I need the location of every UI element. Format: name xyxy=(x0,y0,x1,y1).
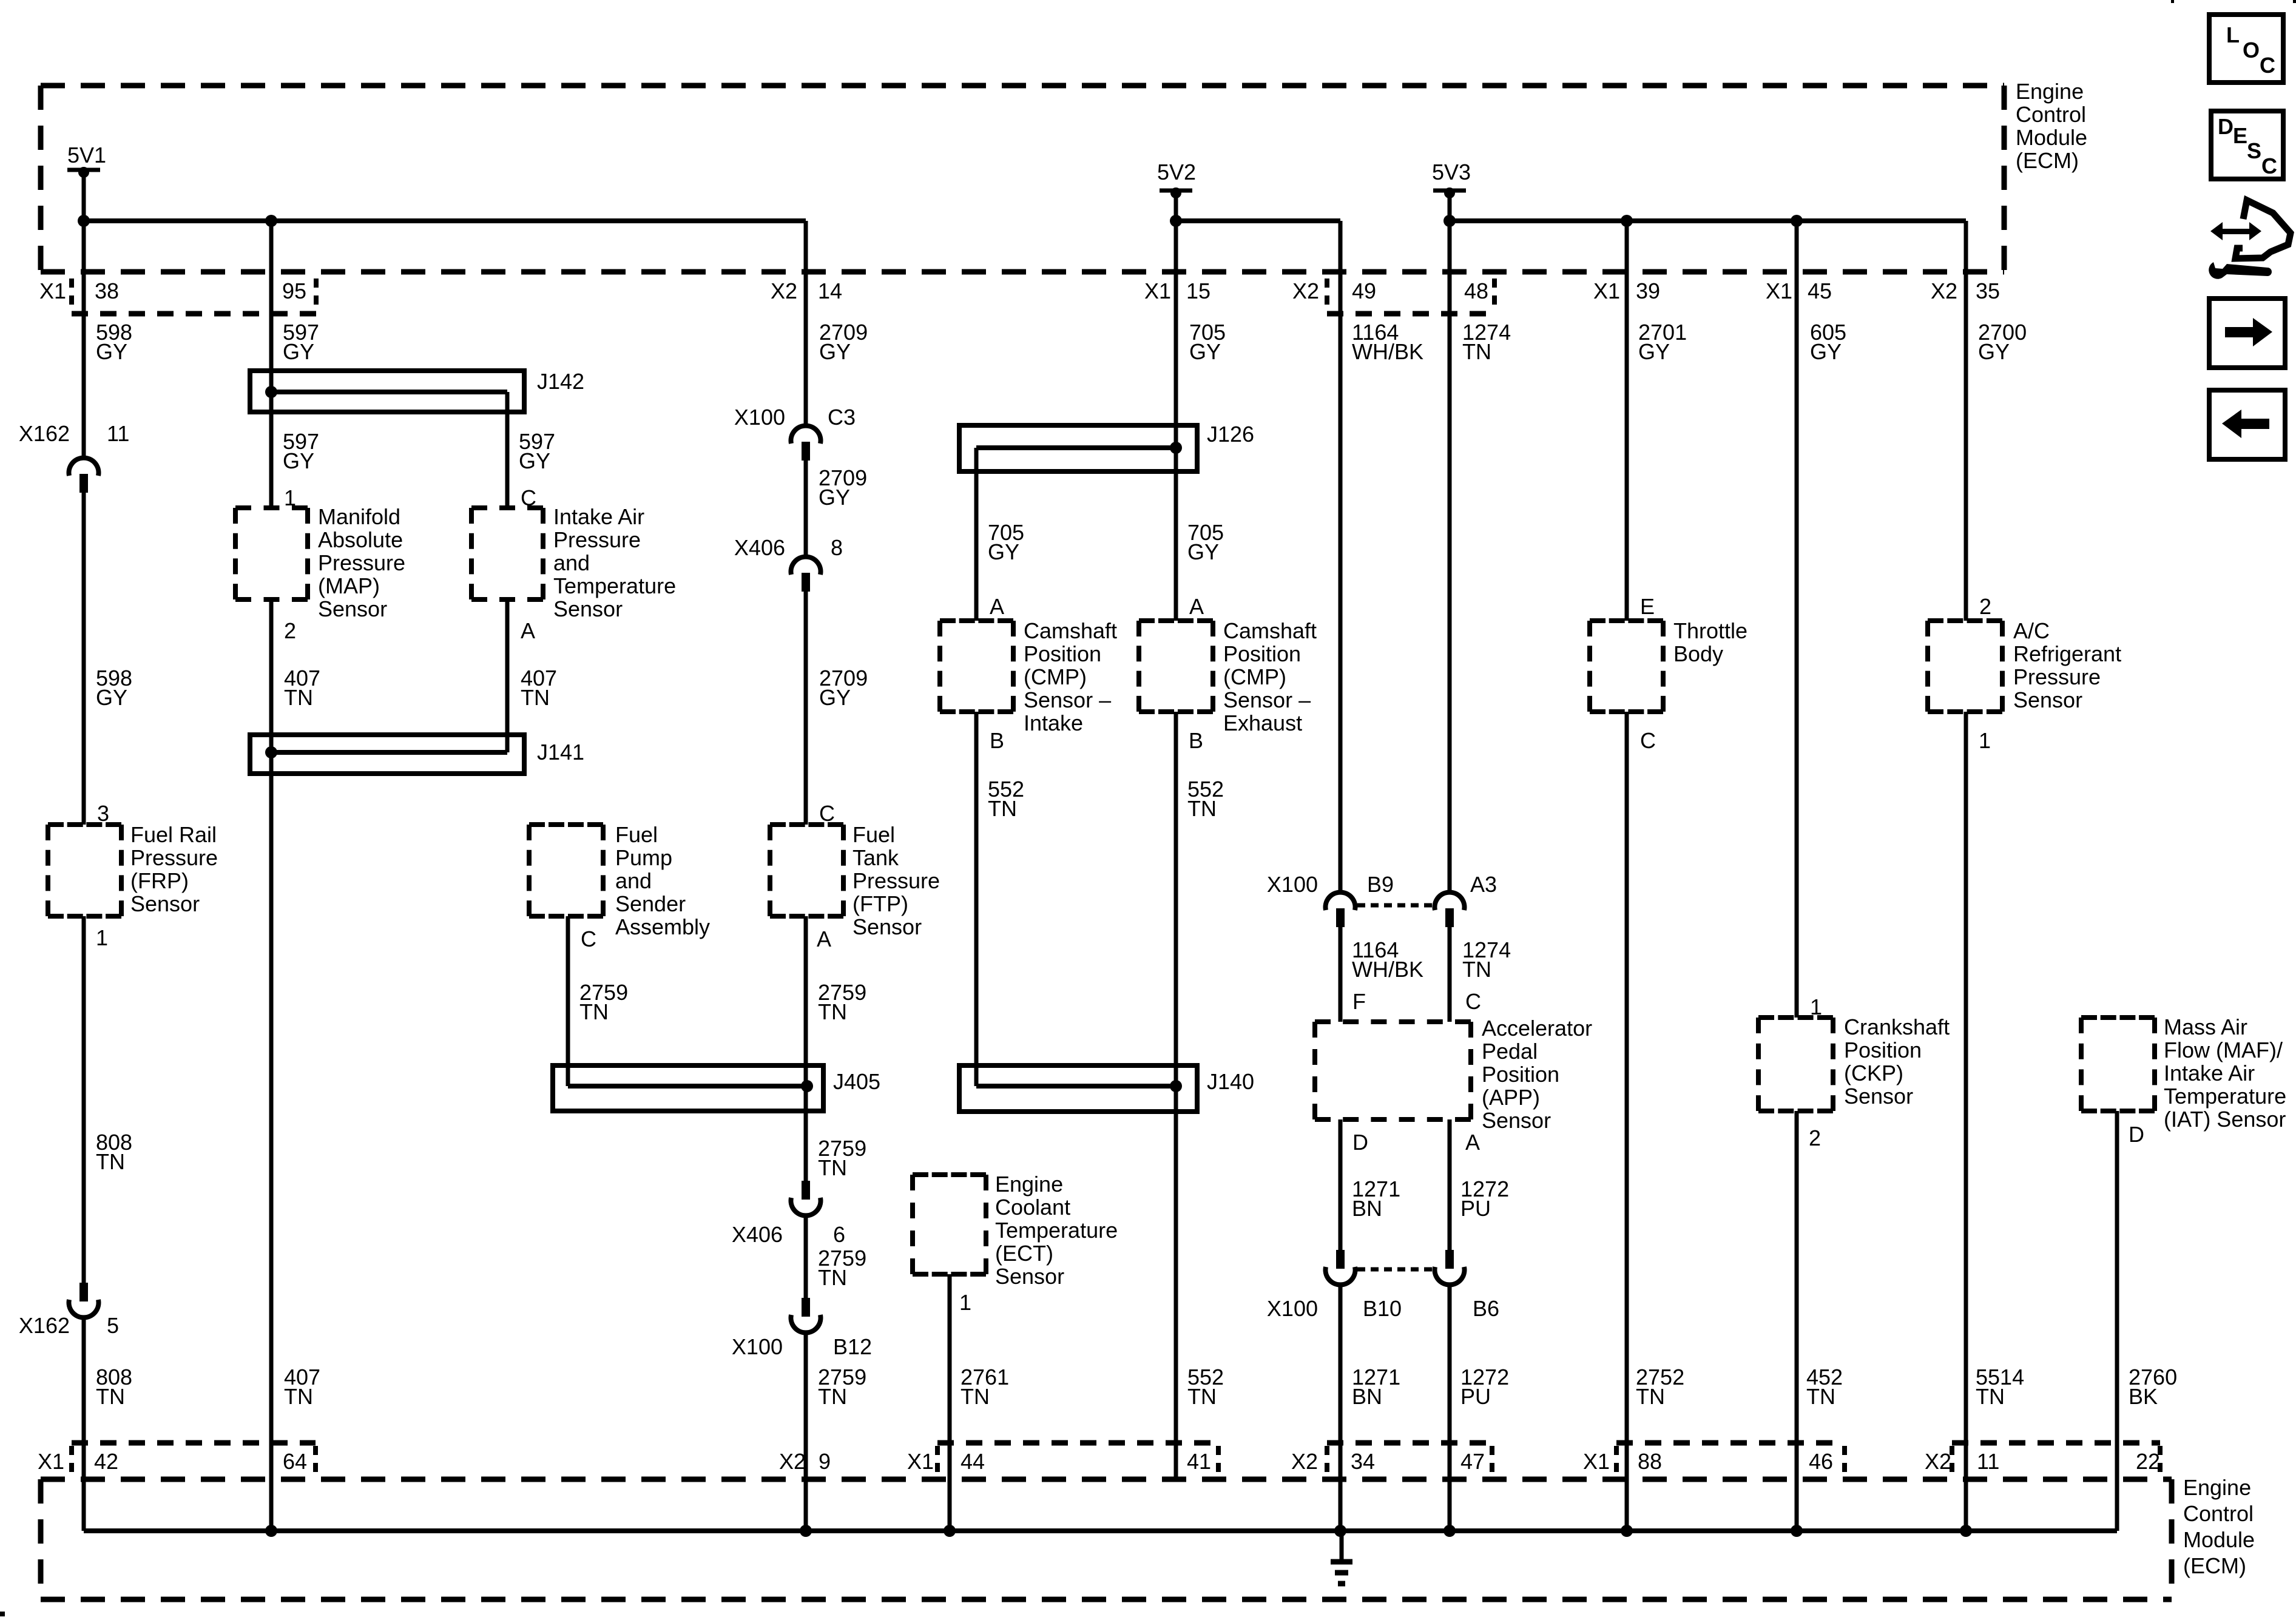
connector X100 pin B9 xyxy=(1267,872,1394,927)
svg-text:Camshaft: Camshaft xyxy=(1024,618,1117,643)
5V1 reference voltage terminal xyxy=(67,143,106,178)
wire 552 TN CMP exhaust pin B to J140 xyxy=(1174,712,1178,1086)
label wire 597 GY (J142 left) xyxy=(283,429,319,473)
ECM connector X2 pins 49 48 bracket xyxy=(1292,279,1494,314)
label wire 598 GY xyxy=(96,320,132,364)
svg-text:Position: Position xyxy=(1482,1062,1559,1087)
label Fuel Pump and Sender Assembly xyxy=(615,822,710,939)
splice J126 xyxy=(959,422,1254,471)
svg-text:GY: GY xyxy=(1810,339,1842,364)
svg-text:GY: GY xyxy=(283,339,314,364)
svg-text:Pressure: Pressure xyxy=(2013,664,2101,689)
svg-text:Module: Module xyxy=(2183,1527,2255,1552)
svg-text:X1: X1 xyxy=(1583,1449,1610,1474)
svg-text:J405: J405 xyxy=(833,1069,880,1094)
sensor AC Refrigerant Pressure dashed box xyxy=(1928,621,2002,712)
label wire 2759 TN (fuel pump) xyxy=(579,980,628,1024)
svg-text:2: 2 xyxy=(1809,1126,1821,1150)
label wire 2759 TN (FTP) xyxy=(818,980,866,1024)
splice J405 xyxy=(553,1065,880,1111)
svg-text:14: 14 xyxy=(818,279,842,303)
connector X162 pin 11 xyxy=(19,421,129,493)
sensor MAP dashed box xyxy=(235,508,308,599)
svg-text:C: C xyxy=(2261,154,2277,178)
svg-text:TN: TN xyxy=(284,685,313,710)
wire 808 TN X162-5 to pin 42 xyxy=(82,1318,86,1531)
svg-text:B: B xyxy=(1189,728,1203,753)
svg-text:C: C xyxy=(819,801,835,826)
wire 598 GY pin38 to X162-11 xyxy=(82,170,86,457)
svg-text:Intake Air: Intake Air xyxy=(553,504,644,529)
svg-text:5V1: 5V1 xyxy=(67,143,106,167)
ECM connector X2 pins 11 22 bracket bottom xyxy=(1925,1443,2160,1474)
sensor FRP dashed box xyxy=(48,825,121,916)
junction bus x=1328 xyxy=(800,1525,812,1537)
svg-text:Sensor: Sensor xyxy=(1844,1084,1913,1109)
svg-text:Absolute: Absolute xyxy=(318,527,403,552)
svg-text:X1: X1 xyxy=(907,1449,934,1474)
svg-text:Pump: Pump xyxy=(615,845,672,870)
svg-text:WH/BK: WH/BK xyxy=(1352,957,1423,982)
label wire 2759 TN below X406-6 xyxy=(818,1246,866,1290)
svg-text:2: 2 xyxy=(284,618,296,643)
svg-text:Temperature: Temperature xyxy=(995,1218,1118,1243)
svg-text:X162: X162 xyxy=(19,421,70,446)
svg-text:TN: TN xyxy=(818,1384,847,1409)
ECM connector X1 pins 38 95 bracket xyxy=(39,279,316,314)
wire 407 TN J141 to pin 64 xyxy=(269,752,274,1531)
svg-text:Tank: Tank xyxy=(853,845,899,870)
junction bus x=2681 xyxy=(1621,1525,1633,1537)
svg-text:(MAP): (MAP) xyxy=(318,573,380,598)
svg-text:Flow (MAF)/: Flow (MAF)/ xyxy=(2164,1038,2283,1062)
svg-text:TN: TN xyxy=(1806,1384,1835,1409)
svg-text:X1: X1 xyxy=(1766,279,1792,303)
label wire 2759 TN below J405 xyxy=(818,1136,866,1180)
svg-text:C: C xyxy=(1640,728,1656,753)
svg-text:X2: X2 xyxy=(1292,279,1319,303)
svg-text:TN: TN xyxy=(988,796,1017,821)
wire 705 GY J126 to CMP exhaust pin A xyxy=(1174,448,1178,621)
svg-text:X2: X2 xyxy=(779,1449,806,1474)
svg-text:A: A xyxy=(1189,594,1204,619)
svg-text:X100: X100 xyxy=(732,1334,783,1359)
svg-text:64: 64 xyxy=(283,1449,307,1474)
svg-text:D: D xyxy=(2218,114,2234,139)
svg-text:X2: X2 xyxy=(1925,1449,1951,1474)
wire 1272 PU X100-B6 to pin 47 xyxy=(1448,1285,1452,1531)
connector X162 pin 5 xyxy=(19,1283,119,1338)
svg-text:X1: X1 xyxy=(1593,279,1620,303)
svg-text:Module: Module xyxy=(2016,125,2087,150)
label wire 2761 TN bottom xyxy=(961,1365,1009,1409)
svg-text:38: 38 xyxy=(95,279,119,303)
wire 605 GY pin45 to CKP pin 1 xyxy=(1795,221,1799,1018)
wire 2709 GY X100-C3 to X406-8 xyxy=(804,457,808,556)
svg-text:GY: GY xyxy=(819,485,850,510)
svg-text:Exhaust: Exhaust xyxy=(1223,711,1302,735)
junction bus/pin95 xyxy=(265,215,277,227)
svg-text:Control: Control xyxy=(2016,102,2086,127)
svg-text:Sensor: Sensor xyxy=(2013,687,2082,712)
svg-text:Temperature: Temperature xyxy=(553,573,676,598)
label wire 1274 TN lower xyxy=(1462,937,1511,982)
wire 2752 TN Throttle Body pin C to pin 88 xyxy=(1625,712,1629,1531)
wire 2759 TN Fuel Pump pin C to J405 xyxy=(568,916,807,1086)
icon DESC box xyxy=(2211,111,2283,179)
svg-text:Assembly: Assembly xyxy=(615,914,710,939)
wire 5V2 internal bus xyxy=(1176,221,1340,272)
label wire 2709 GY (pin 14) xyxy=(819,320,868,364)
label wire 2701 GY (pin 39) xyxy=(1638,320,1687,364)
svg-text:A: A xyxy=(817,927,831,951)
svg-text:39: 39 xyxy=(1636,279,1660,303)
svg-text:Position: Position xyxy=(1223,641,1301,666)
svg-text:Engine: Engine xyxy=(2016,79,2084,104)
wire ECM internal ground bus xyxy=(84,1528,2117,1533)
svg-text:BN: BN xyxy=(1352,1384,1382,1409)
svg-text:X100: X100 xyxy=(734,405,785,430)
wire 705 GY J126 to CMP intake pin A xyxy=(974,448,979,621)
ECM connector X1 pin 39 xyxy=(1593,279,1660,303)
svg-text:Sensor: Sensor xyxy=(130,891,200,916)
label wire 705 GY (pin 15) xyxy=(1189,320,1226,364)
svg-text:3: 3 xyxy=(97,801,109,826)
wire 1274 TN 5V3 to X100-A3 xyxy=(1448,191,1452,892)
junction 5V1/pin38 xyxy=(78,215,90,227)
svg-text:BK: BK xyxy=(2129,1384,2158,1409)
svg-text:C3: C3 xyxy=(828,405,856,430)
wire 2759 TN J405 to X406-6 xyxy=(804,1086,808,1181)
svg-text:(ECT): (ECT) xyxy=(995,1241,1053,1266)
wire 1272 PU APP pin A to X100-B6 xyxy=(1448,1119,1452,1250)
svg-text:1: 1 xyxy=(1979,728,1991,753)
wire 5V3 internal bus xyxy=(1450,221,1966,272)
svg-text:TN: TN xyxy=(1462,339,1491,364)
svg-text:Sensor: Sensor xyxy=(853,914,922,939)
svg-text:X100: X100 xyxy=(1267,872,1318,897)
svg-text:GY: GY xyxy=(283,448,314,473)
svg-text:(FRP): (FRP) xyxy=(130,868,189,893)
svg-text:C: C xyxy=(581,927,596,951)
sensor FTP dashed box xyxy=(770,825,843,916)
svg-text:X1: X1 xyxy=(39,279,66,303)
svg-text:Crankshaft: Crankshaft xyxy=(1844,1014,1950,1039)
svg-text:95: 95 xyxy=(282,279,306,303)
junction bus x=1565 xyxy=(944,1525,956,1537)
wire 598 GY X162-11 to FRP pin 3 xyxy=(82,493,86,825)
label wire 598 GY lower xyxy=(96,666,132,710)
svg-text:TN: TN xyxy=(579,999,609,1024)
svg-text:Pressure: Pressure xyxy=(318,550,405,575)
svg-text:TN: TN xyxy=(96,1384,125,1409)
svg-text:Throttle: Throttle xyxy=(1673,618,1747,643)
label Crankshaft Position (CKP) Sensor xyxy=(1844,1014,1950,1109)
svg-text:A/C: A/C xyxy=(2013,618,2050,643)
label wire 452 TN bottom xyxy=(1806,1365,1843,1409)
svg-text:X2: X2 xyxy=(771,279,797,303)
svg-text:B12: B12 xyxy=(833,1334,872,1359)
svg-text:Sensor: Sensor xyxy=(318,596,387,621)
wire 2759 TN X406-6 to X100-B12 xyxy=(804,1216,808,1298)
svg-text:Sensor –: Sensor – xyxy=(1223,687,1311,712)
svg-text:8: 8 xyxy=(831,535,843,560)
splice J140 xyxy=(959,1065,1254,1112)
ECM connector X1 pins 44 41 bracket bottom xyxy=(907,1443,1218,1474)
label wire 407 TN bottom xyxy=(284,1365,320,1409)
svg-text:Position: Position xyxy=(1844,1038,1922,1062)
label wire 2759 TN bottom xyxy=(818,1365,866,1409)
wire 597 GY pin95 to J142 xyxy=(269,221,274,392)
svg-text:Position: Position xyxy=(1024,641,1101,666)
svg-text:2: 2 xyxy=(1979,594,1991,619)
svg-text:S: S xyxy=(2247,138,2261,163)
label Engine Control Module (ECM) bottom right xyxy=(2183,1475,2255,1578)
wire 2709 GY X406-8 to FTP pin C xyxy=(804,589,808,825)
svg-text:1: 1 xyxy=(1810,994,1822,1019)
svg-text:GY: GY xyxy=(1638,339,1670,364)
label wire 552 TN (CMP intake) xyxy=(988,777,1024,821)
svg-text:B6: B6 xyxy=(1473,1296,1499,1321)
svg-text:(ECM): (ECM) xyxy=(2183,1553,2246,1578)
svg-text:Body: Body xyxy=(1673,641,1723,666)
wire 2759 TN FTP pin A to J405 xyxy=(804,916,808,1086)
wire 2701 GY pin39 to Throttle Body pin E xyxy=(1625,221,1629,621)
svg-text:L: L xyxy=(2226,22,2240,47)
svg-text:9: 9 xyxy=(819,1449,831,1474)
connector X100 pin B6 xyxy=(1434,1250,1499,1321)
dashed link X100 B10-B6 xyxy=(1357,1268,1433,1272)
svg-text:41: 41 xyxy=(1187,1449,1211,1474)
svg-text:5: 5 xyxy=(107,1313,119,1338)
svg-text:Coolant: Coolant xyxy=(995,1195,1070,1220)
svg-text:Engine: Engine xyxy=(995,1172,1063,1197)
svg-text:GY: GY xyxy=(519,448,550,473)
label Throttle Body xyxy=(1673,618,1747,666)
wire 597 GY J142 to MAP pin 1 xyxy=(269,392,274,508)
svg-text:Pressure: Pressure xyxy=(130,845,218,870)
svg-text:Refrigerant: Refrigerant xyxy=(2013,641,2121,666)
icon forward arrow box xyxy=(2209,299,2285,368)
label Camshaft Position (CMP) Sensor - Exhaust xyxy=(1223,618,1317,735)
svg-text:Mass Air: Mass Air xyxy=(2164,1014,2247,1039)
label wire 705 GY (CMP intake) xyxy=(988,520,1024,564)
svg-text:11: 11 xyxy=(107,421,129,446)
ECM connector X2 pin 35 xyxy=(1931,279,2000,303)
label Camshaft Position (CMP) Sensor - Intake xyxy=(1024,618,1117,735)
svg-text:F: F xyxy=(1352,989,1366,1014)
junction bus/pin39 xyxy=(1621,215,1633,227)
svg-text:TN: TN xyxy=(96,1149,125,1174)
svg-text:TN: TN xyxy=(1187,1384,1217,1409)
svg-text:Pressure: Pressure xyxy=(853,868,940,893)
ECM top dashed box (Engine Control Module) xyxy=(41,86,2004,272)
svg-text:46: 46 xyxy=(1809,1449,1833,1474)
svg-text:1: 1 xyxy=(96,925,108,950)
label Mass Air Flow (MAF)/Intake Air Temperature (IAT) Sensor xyxy=(2164,1014,2286,1132)
svg-text:Intake: Intake xyxy=(1024,711,1083,735)
wire 5514 TN AC pressure sensor pin 1 to pin 11 xyxy=(1964,712,1968,1531)
label wire 597 GY (J142 right) xyxy=(519,429,555,473)
wire 2761 TN ECT pin1 to pin 44 xyxy=(948,1274,952,1531)
label Accelerator Pedal Position (APP) Sensor xyxy=(1482,1016,1592,1133)
junction bus x=3240 xyxy=(1960,1525,1972,1537)
junction bus x=447 xyxy=(265,1525,277,1537)
wire 1274 TN X100-A3 to APP pin C xyxy=(1448,927,1452,1022)
junction bus x=2209 xyxy=(1334,1525,1346,1537)
component Fuel Pump and Sender Assembly dashed box xyxy=(529,825,603,916)
label Manifold Absolute Pressure (MAP) Sensor xyxy=(318,504,405,621)
svg-text:49: 49 xyxy=(1352,279,1376,303)
junction bus x=2389 xyxy=(1443,1525,1456,1537)
svg-text:X1: X1 xyxy=(1144,279,1171,303)
icon LOC box xyxy=(2209,15,2283,83)
svg-text:A: A xyxy=(521,618,535,643)
ground symbol xyxy=(1331,1531,1352,1584)
wire 597 GY J142 to IAP pin C xyxy=(505,392,510,508)
svg-text:48: 48 xyxy=(1464,279,1488,303)
label wire 2752 TN bottom xyxy=(1636,1365,1684,1409)
label Engine Control Module (ECM) top right xyxy=(2016,79,2087,173)
wire 2760 BK MAF pin D to pin 22 xyxy=(2115,1111,2119,1531)
svg-text:PU: PU xyxy=(1460,1384,1491,1409)
svg-text:Fuel Rail: Fuel Rail xyxy=(130,822,217,847)
svg-text:TN: TN xyxy=(1636,1384,1665,1409)
wire 5V1 internal bus xyxy=(84,221,806,272)
wire 1271 BN X100-B10 to pin 34 xyxy=(1339,1285,1343,1531)
wire 1164 WH/BK pin49 to X100-B9 xyxy=(1339,221,1343,892)
svg-text:D: D xyxy=(1352,1130,1368,1155)
svg-text:TN: TN xyxy=(1462,957,1491,982)
splice J141 xyxy=(250,735,584,774)
wire 2759 TN X100-B12 to pin 9 xyxy=(804,1333,808,1531)
connector X100 pin B12 xyxy=(732,1298,872,1359)
label wire 407 TN (MAP) xyxy=(284,666,320,710)
sensor ECT dashed box xyxy=(913,1175,986,1274)
svg-text:Manifold: Manifold xyxy=(318,504,400,529)
svg-text:Sensor: Sensor xyxy=(553,596,623,621)
wire 705 GY 5V2 to J126 xyxy=(1174,191,1178,448)
svg-text:TN: TN xyxy=(1976,1384,2005,1409)
sensor Throttle Body dashed box xyxy=(1590,621,1663,712)
label wire 407 TN (IAP) xyxy=(521,666,557,710)
ECM connector X1 pin 15 xyxy=(1144,279,1210,303)
label wire 2700 GY (pin 35) xyxy=(1978,320,2027,364)
icon wiring schematic jump (arrow and wrench) xyxy=(2209,200,2291,279)
label Fuel Rail Pressure (FRP) Sensor xyxy=(130,822,218,916)
svg-text:(IAT) Sensor: (IAT) Sensor xyxy=(2164,1107,2286,1132)
svg-text:Intake Air: Intake Air xyxy=(2164,1061,2255,1085)
svg-text:Accelerator: Accelerator xyxy=(1482,1016,1592,1041)
svg-text:WH/BK: WH/BK xyxy=(1352,339,1423,364)
svg-text:J141: J141 xyxy=(537,740,584,765)
svg-text:22: 22 xyxy=(2136,1449,2160,1474)
label wire 1274 TN (pin 48) xyxy=(1462,320,1511,364)
svg-text:X2: X2 xyxy=(1291,1449,1318,1474)
svg-text:GY: GY xyxy=(1978,339,2010,364)
label wire 2760 BK bottom xyxy=(2129,1365,2177,1409)
connector X100 pin A3 xyxy=(1435,872,1497,927)
wire 2700 GY pin35 to AC pressure sensor pin 2 xyxy=(1964,221,1968,621)
svg-text:BN: BN xyxy=(1352,1196,1382,1221)
svg-text:B10: B10 xyxy=(1363,1296,1402,1321)
junction 5V3/pin48 xyxy=(1443,215,1456,227)
svg-text:TN: TN xyxy=(961,1384,990,1409)
svg-text:GY: GY xyxy=(988,539,1019,564)
svg-text:B9: B9 xyxy=(1367,872,1394,897)
svg-text:TN: TN xyxy=(818,999,847,1024)
svg-text:GY: GY xyxy=(96,339,127,364)
wire 1164 WH/BK X100-B9 to APP pin F xyxy=(1339,927,1343,1022)
page corner mark bottom left xyxy=(0,1612,5,1616)
5V2 reference voltage terminal xyxy=(1157,160,1196,198)
svg-text:X406: X406 xyxy=(732,1222,783,1247)
ECM connector X2 pin 9 bottom xyxy=(779,1449,831,1474)
svg-text:B: B xyxy=(990,728,1004,753)
svg-text:J126: J126 xyxy=(1207,422,1254,447)
svg-text:A: A xyxy=(1465,1130,1480,1155)
svg-text:88: 88 xyxy=(1638,1449,1662,1474)
connector X100 pin B10 xyxy=(1267,1250,1402,1321)
svg-text:E: E xyxy=(2233,123,2247,148)
ECM bottom dashed box (Engine Control Module) xyxy=(41,1479,2172,1599)
connector X406 pin 6 xyxy=(732,1181,845,1247)
label wire 552 TN (CMP exhaust) xyxy=(1187,777,1224,821)
sensor CMP intake dashed box xyxy=(940,621,1013,712)
svg-text:Sensor –: Sensor – xyxy=(1024,687,1111,712)
svg-text:Sender: Sender xyxy=(615,891,686,916)
svg-text:E: E xyxy=(1640,594,1655,619)
svg-text:1: 1 xyxy=(284,485,296,510)
svg-text:O: O xyxy=(2243,38,2260,62)
svg-text:45: 45 xyxy=(1808,279,1832,303)
ECM connector X1 pins 42 64 bracket bottom xyxy=(38,1443,316,1474)
svg-text:PU: PU xyxy=(1460,1196,1491,1221)
junction bus/pin45 xyxy=(1791,215,1803,227)
svg-text:Fuel: Fuel xyxy=(615,822,658,847)
label Engine Coolant Temperature (ECT) Sensor xyxy=(995,1172,1118,1289)
sensor MAF/IAT dashed box xyxy=(2081,1018,2155,1111)
connector X406 pin 8 xyxy=(734,535,843,592)
label wire 552 TN bottom xyxy=(1187,1365,1224,1409)
sensor Intake Air Pressure and Temperature dashed box xyxy=(471,508,543,599)
svg-text:X1: X1 xyxy=(38,1449,64,1474)
svg-text:(FTP): (FTP) xyxy=(853,891,908,916)
icon back arrow box xyxy=(2209,390,2285,459)
svg-text:X162: X162 xyxy=(19,1313,70,1338)
ECM connector X1 pins 88 46 bracket bottom xyxy=(1583,1443,1845,1474)
svg-text:GY: GY xyxy=(819,339,851,364)
label wire 597 GY (pin 95) xyxy=(283,320,319,364)
label wire 2709 GY below X406-8 xyxy=(819,666,868,710)
svg-text:Control: Control xyxy=(2183,1501,2254,1526)
svg-text:C: C xyxy=(1465,989,1481,1014)
label wire 705 GY (CMP exhaust) xyxy=(1187,520,1224,564)
svg-text:and: and xyxy=(553,550,590,575)
svg-text:(CMP): (CMP) xyxy=(1223,664,1286,689)
wire 808 TN FRP pin1 to X162-5 xyxy=(82,916,86,1283)
wire 452 TN CKP pin 2 to pin 46 xyxy=(1795,1111,1799,1531)
svg-text:A: A xyxy=(990,594,1004,619)
label Intake Air Pressure and Temperature Sensor xyxy=(553,504,676,621)
svg-text:GY: GY xyxy=(1189,339,1221,364)
junction 5V2/pin15 xyxy=(1170,215,1182,227)
svg-text:J140: J140 xyxy=(1207,1069,1254,1094)
svg-text:Sensor: Sensor xyxy=(1482,1108,1551,1133)
dashed link X100 B9-A3 xyxy=(1357,903,1433,908)
svg-text:34: 34 xyxy=(1351,1449,1375,1474)
svg-text:42: 42 xyxy=(94,1449,118,1474)
